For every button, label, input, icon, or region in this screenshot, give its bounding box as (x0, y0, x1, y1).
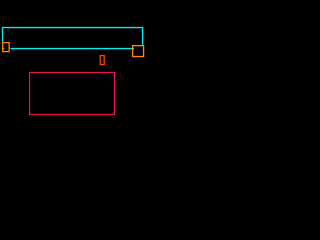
node: right orange handle square (133, 46, 144, 57)
component: small orange-red tick (100, 56, 104, 65)
background canvas (0, 0, 200, 200)
node: left orange handle square (3, 43, 9, 52)
wire: cyan net stub inside left handle (3, 48, 4, 50)
wire: cyan net bottom segment (passes under handle squares) (11, 48, 135, 50)
wire: cyan box outline (left, top, right edges) (3, 28, 143, 46)
component: crimson rectangle body (30, 73, 115, 115)
